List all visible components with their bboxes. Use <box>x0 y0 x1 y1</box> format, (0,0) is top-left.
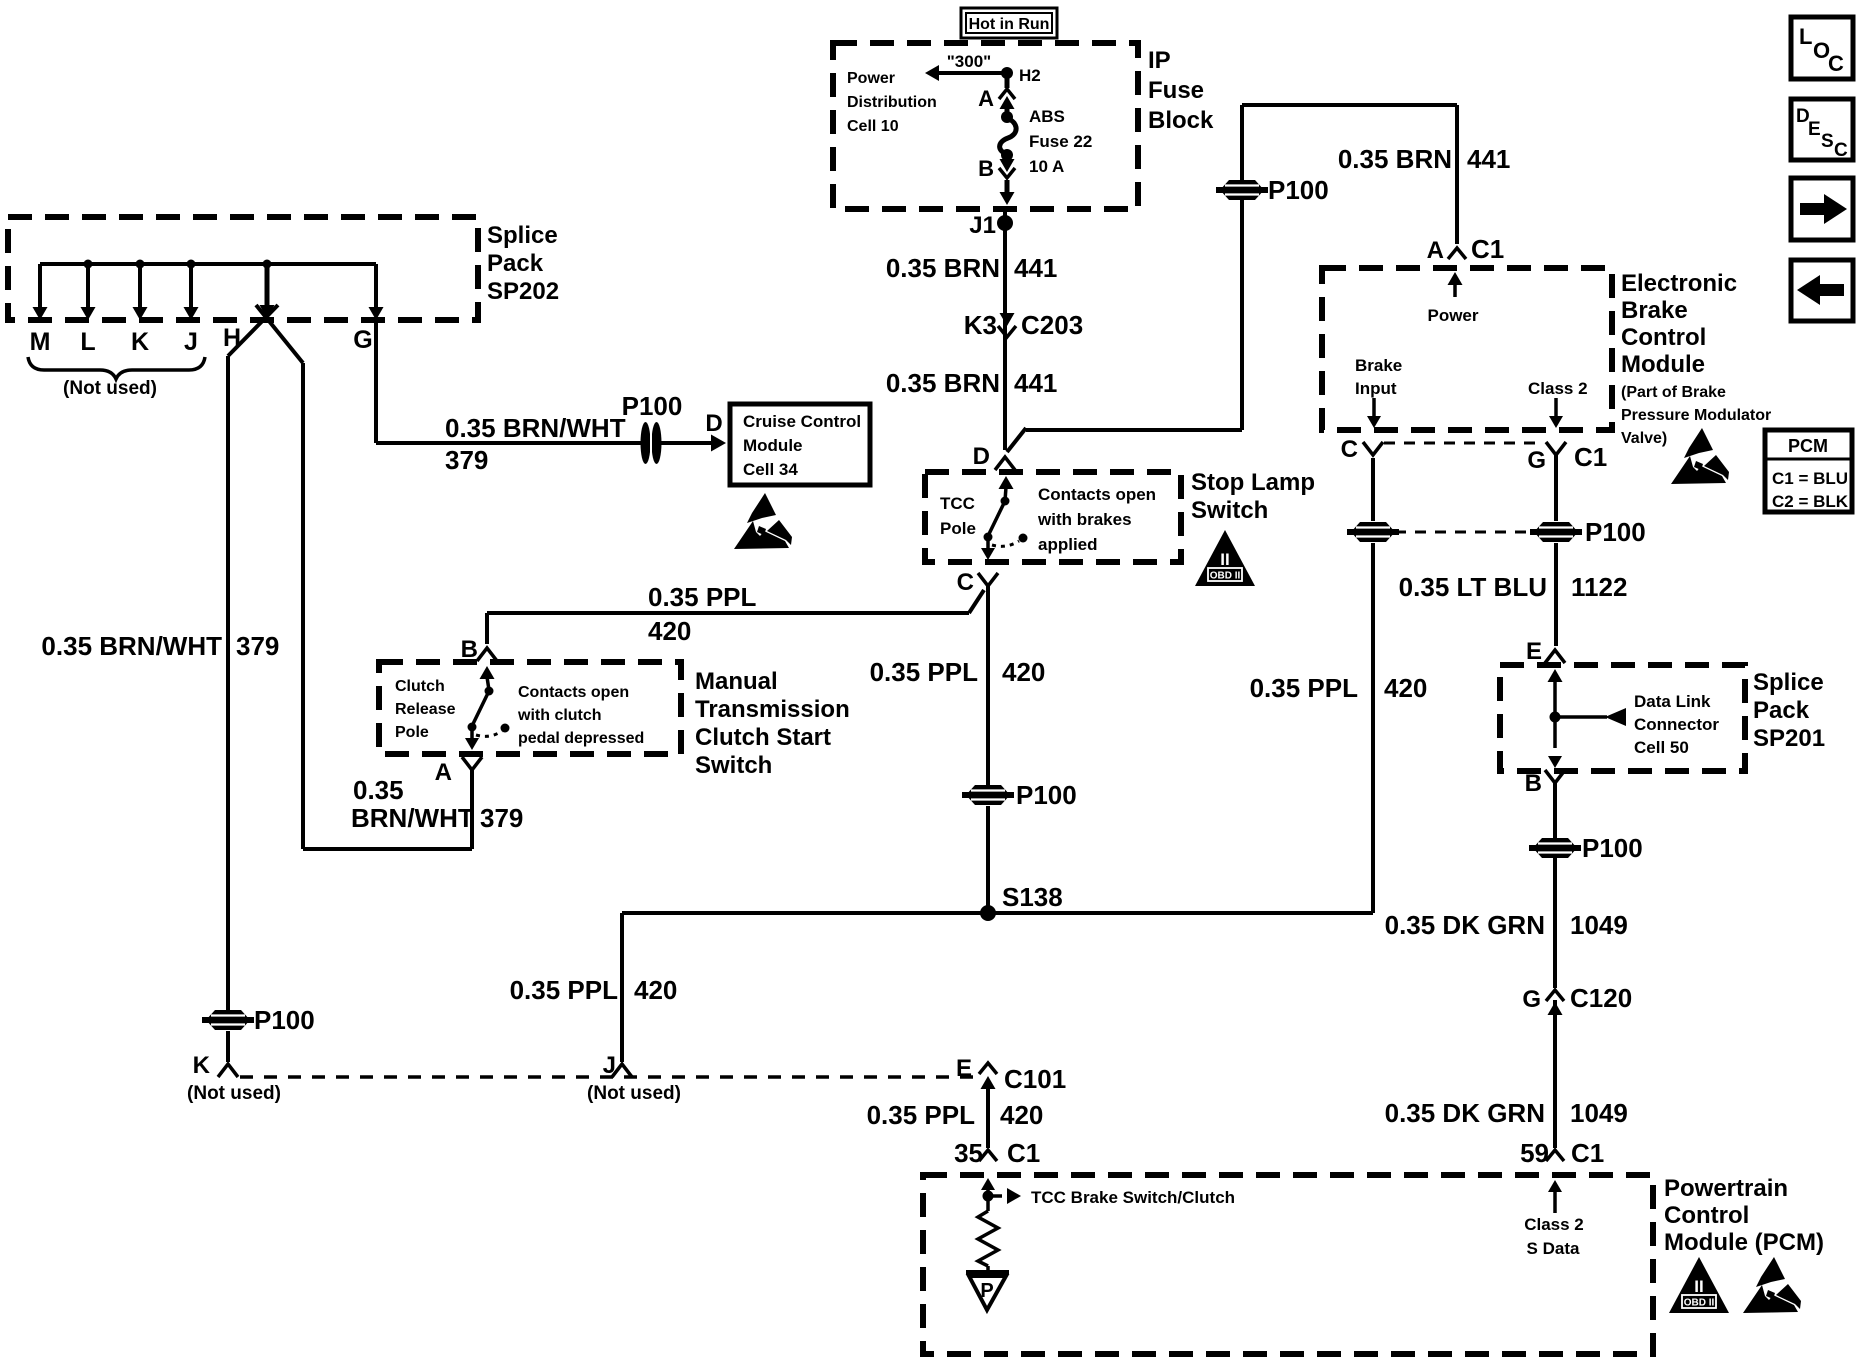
clutch switch dashed box <box>379 662 681 754</box>
svg-text:C203: C203 <box>1021 310 1083 340</box>
splice pack SP202 dashed box <box>8 217 478 320</box>
svg-text:M: M <box>30 328 51 356</box>
svg-text:C1: C1 <box>1007 1138 1040 1168</box>
bulkhead connector P100 (EBCM C) <box>1347 522 1399 542</box>
svg-text:SP201: SP201 <box>1753 725 1825 752</box>
svg-text:D: D <box>973 443 990 470</box>
fuse F22 ABS <box>1005 73 1010 88</box>
svg-text:Switch: Switch <box>1191 497 1268 524</box>
pin C of EBCM <box>1363 442 1383 455</box>
icon box prev-arrow <box>1791 260 1853 321</box>
wire G down to SP201 <box>1554 455 1558 521</box>
pin 35 C1 of PCM <box>979 1150 997 1161</box>
svg-text:C2 = BLK: C2 = BLK <box>1772 492 1849 511</box>
svg-text:Data Link: Data Link <box>1634 692 1711 711</box>
svg-text:Power: Power <box>847 70 895 87</box>
connector C101 pin E <box>979 1063 997 1074</box>
IP fuse block dashed box <box>833 43 1138 209</box>
pin J not used <box>612 1064 632 1077</box>
svg-text:P100: P100 <box>254 1005 315 1035</box>
pin A of clutch switch <box>462 757 482 770</box>
splice S138 <box>980 905 996 921</box>
svg-text:Brake: Brake <box>1355 356 1402 375</box>
ESD symbol (EBCM) <box>1671 428 1729 484</box>
wire C down to S138 <box>986 586 990 785</box>
svg-text:D: D <box>705 410 722 437</box>
svg-text:A: A <box>978 86 994 111</box>
svg-text:0.35 PPL: 0.35 PPL <box>510 975 619 1005</box>
svg-text:C: C <box>1834 140 1848 161</box>
wire S138 horizontal <box>622 911 1373 915</box>
connector C120 pin G <box>1546 990 1564 1001</box>
svg-text:A: A <box>435 759 452 786</box>
svg-text:379: 379 <box>445 445 488 475</box>
pin A C1 of EBCM <box>1448 248 1466 259</box>
svg-text:with brakes: with brakes <box>1037 510 1132 529</box>
bulkhead connector P100 (left) <box>202 1010 254 1030</box>
svg-text:II: II <box>1220 550 1229 569</box>
svg-text:Input: Input <box>1355 379 1397 398</box>
bulkhead connector P100 (class2) <box>1530 522 1582 542</box>
pin K not used <box>218 1064 238 1077</box>
svg-text:Stop Lamp: Stop Lamp <box>1191 469 1315 496</box>
terminal M <box>38 264 42 308</box>
switch TCC pole contacts <box>999 476 1014 489</box>
wire S138 down to J <box>620 913 624 1062</box>
svg-text:Valve): Valve) <box>1621 430 1667 447</box>
svg-text:59: 59 <box>1520 1138 1549 1168</box>
svg-text:(Not used): (Not used) <box>187 1083 281 1104</box>
svg-text:ABS: ABS <box>1029 107 1065 126</box>
svg-text:Class 2: Class 2 <box>1528 379 1588 398</box>
pin G C1 of EBCM <box>1546 442 1566 455</box>
svg-text:Fuse: Fuse <box>1148 77 1204 104</box>
svg-text:Transmission: Transmission <box>695 696 850 723</box>
svg-text:0.35 LT BLU: 0.35 LT BLU <box>1399 572 1547 602</box>
svg-text:L: L <box>80 328 95 356</box>
pin D of stop lamp switch <box>995 457 1015 470</box>
svg-text:Distribution: Distribution <box>847 94 937 111</box>
splice pack SP201 dashed box <box>1500 665 1745 771</box>
svg-text:with clutch: with clutch <box>517 707 602 724</box>
svg-text:Cruise Control: Cruise Control <box>743 412 861 431</box>
dashed link C-G pins <box>1384 442 1544 445</box>
svg-text:K: K <box>193 1052 211 1079</box>
svg-text:35: 35 <box>954 1138 983 1168</box>
svg-text:Cell 50: Cell 50 <box>1634 738 1689 757</box>
terminal H <box>263 260 272 269</box>
svg-text:H: H <box>223 324 241 352</box>
svg-text:0.35 PPL: 0.35 PPL <box>870 657 979 687</box>
svg-text:J: J <box>603 1052 616 1079</box>
svg-text:C120: C120 <box>1570 983 1632 1013</box>
EBCM dashed box <box>1322 268 1612 430</box>
icon box LOC <box>1791 17 1853 79</box>
svg-text:Control: Control <box>1621 324 1706 351</box>
svg-text:L: L <box>1799 24 1812 49</box>
svg-text:Power: Power <box>1427 306 1478 325</box>
svg-text:G: G <box>1522 986 1541 1013</box>
svg-text:J: J <box>184 328 198 356</box>
terminal K <box>136 260 145 269</box>
brace not used M-J <box>28 357 205 379</box>
svg-text:Class 2: Class 2 <box>1524 1215 1584 1234</box>
bulkhead connector P100 (top) <box>1216 180 1268 200</box>
svg-text:OBD II: OBD II <box>1684 1298 1715 1309</box>
PCM legend box <box>1765 430 1852 512</box>
svg-text:Clutch Start: Clutch Start <box>695 724 831 751</box>
pin C of stop lamp switch <box>978 573 998 586</box>
pin E of SP201 <box>1545 650 1565 663</box>
svg-text:Contacts open: Contacts open <box>1038 485 1156 504</box>
svg-text:Pole: Pole <box>395 724 429 741</box>
svg-text:Control: Control <box>1664 1202 1749 1229</box>
svg-text:Pack: Pack <box>1753 697 1810 724</box>
svg-text:0.35 PPL: 0.35 PPL <box>1250 673 1359 703</box>
svg-text:Block: Block <box>1148 107 1214 134</box>
svg-text:C101: C101 <box>1004 1064 1066 1094</box>
switch clutch release pole contacts <box>480 666 495 679</box>
wire G to cruise control module <box>374 322 378 443</box>
svg-text:Module: Module <box>1621 351 1705 378</box>
svg-text:B: B <box>461 636 478 663</box>
pin B of clutch switch <box>477 648 497 661</box>
svg-text:P: P <box>980 1280 993 1302</box>
stop lamp switch dashed box <box>925 472 1181 562</box>
svg-text:IP: IP <box>1148 47 1171 74</box>
svg-text:1049: 1049 <box>1570 910 1628 940</box>
svg-text:Fuse 22: Fuse 22 <box>1029 132 1092 151</box>
svg-text:C: C <box>957 569 974 596</box>
terminal J <box>187 260 196 269</box>
svg-text:A: A <box>1427 237 1444 264</box>
svg-text:J1: J1 <box>969 212 996 239</box>
svg-text:H2: H2 <box>1019 66 1041 85</box>
svg-text:0.35 BRN: 0.35 BRN <box>1338 144 1452 174</box>
PCM dashed box <box>923 1175 1653 1354</box>
wire 300 feed with arrow <box>925 65 939 81</box>
svg-text:0.35 BRN: 0.35 BRN <box>886 253 1000 283</box>
svg-text:G: G <box>1527 447 1546 474</box>
svg-text:Brake: Brake <box>1621 297 1688 324</box>
svg-text:Switch: Switch <box>695 752 772 779</box>
svg-text:Contacts open: Contacts open <box>518 684 629 701</box>
wire A down-left to splice pack leg <box>470 770 474 849</box>
svg-text:P100: P100 <box>622 391 683 421</box>
svg-text:420: 420 <box>648 616 691 646</box>
svg-text:0.35 PPL: 0.35 PPL <box>867 1100 976 1130</box>
wire fuse to D <box>1003 209 1007 450</box>
svg-text:BRN/WHT: BRN/WHT <box>351 803 474 833</box>
svg-text:0.35 BRN/WHT: 0.35 BRN/WHT <box>445 413 626 443</box>
svg-text:379: 379 <box>480 803 523 833</box>
svg-text:Splice: Splice <box>487 222 558 249</box>
ground P (PCM) <box>966 1270 1009 1274</box>
wire S138 up to EBCM C <box>1371 543 1375 913</box>
svg-text:SP202: SP202 <box>487 278 559 305</box>
svg-text:P100: P100 <box>1585 517 1646 547</box>
svg-text:1122: 1122 <box>1571 572 1627 602</box>
svg-text:0.35 BRN: 0.35 BRN <box>886 368 1000 398</box>
svg-text:Cell 10: Cell 10 <box>847 118 899 135</box>
svg-text:C1: C1 <box>1571 1138 1604 1168</box>
svg-text:Pole: Pole <box>940 519 976 538</box>
ESD symbol (cruise) <box>734 493 792 549</box>
EBCM brake input arrow <box>1372 398 1376 418</box>
svg-text:TCC: TCC <box>940 494 975 513</box>
splice bus SP202 <box>40 262 376 266</box>
svg-text:Hot in Run: Hot in Run <box>969 16 1050 33</box>
svg-text:1049: 1049 <box>1570 1098 1628 1128</box>
terminal L <box>84 260 93 269</box>
connector C203 pin K3 <box>1000 313 1015 326</box>
svg-text:C1: C1 <box>1471 234 1504 264</box>
terminal G <box>374 264 378 308</box>
svg-text:420: 420 <box>1384 673 1427 703</box>
svg-text:10 A: 10 A <box>1029 157 1064 176</box>
svg-text:K3: K3 <box>964 310 997 340</box>
svg-text:Splice: Splice <box>1753 669 1824 696</box>
svg-text:Module (PCM): Module (PCM) <box>1664 1229 1824 1256</box>
svg-text:441: 441 <box>1014 368 1057 398</box>
ESD symbol (PCM) <box>1743 1257 1801 1313</box>
svg-text:E: E <box>956 1055 972 1082</box>
bulkhead connector P100 (mid) <box>962 785 1014 805</box>
dashed not-used line K-J-E <box>240 1075 978 1079</box>
svg-text:C: C <box>1828 51 1844 76</box>
svg-text:P100: P100 <box>1268 175 1329 205</box>
svg-text:(Not used): (Not used) <box>63 378 157 399</box>
svg-text:0.35 PPL: 0.35 PPL <box>648 582 757 612</box>
svg-text:(Part of Brake: (Part of Brake <box>1621 384 1726 401</box>
svg-text:Powertrain: Powertrain <box>1664 1175 1788 1202</box>
svg-text:441: 441 <box>1467 144 1510 174</box>
wire D to P100 to EBCM <box>1007 428 1026 452</box>
power feed label Hot in Run <box>961 8 1057 38</box>
node H2 <box>1001 67 1013 79</box>
pin 59 C1 of PCM <box>1546 1150 1564 1161</box>
svg-text:PCM: PCM <box>1788 436 1828 456</box>
SP201 internal tap <box>1548 669 1563 682</box>
svg-text:S Data: S Data <box>1527 1239 1580 1258</box>
svg-text:Clutch: Clutch <box>395 678 445 695</box>
svg-text:Connector: Connector <box>1634 715 1719 734</box>
svg-text:TCC Brake Switch/Clutch: TCC Brake Switch/Clutch <box>1031 1188 1235 1207</box>
svg-text:OBD II: OBD II <box>1210 571 1241 582</box>
svg-text:Pack: Pack <box>487 250 544 277</box>
wire B down to PCM <box>1553 783 1557 838</box>
inline connector P100 (cruise leg) <box>641 422 662 464</box>
svg-text:Cell 34: Cell 34 <box>743 460 798 479</box>
svg-text:K: K <box>131 328 149 356</box>
svg-text:S: S <box>1821 131 1834 152</box>
EBCM power arrow <box>1448 272 1463 285</box>
svg-text:Manual: Manual <box>695 668 778 695</box>
svg-text:E: E <box>1808 119 1821 140</box>
svg-text:Electronic: Electronic <box>1621 270 1737 297</box>
svg-text:0.35: 0.35 <box>353 775 404 805</box>
cruise control module box <box>730 404 870 485</box>
svg-text:(Not used): (Not used) <box>587 1083 681 1104</box>
icon box DESC <box>1791 99 1853 160</box>
svg-text:C: C <box>1341 436 1358 463</box>
svg-text:"300": "300" <box>947 52 991 71</box>
pin D arrow into cruise module <box>711 435 726 452</box>
svg-text:Pressure Modulator: Pressure Modulator <box>1621 407 1771 424</box>
svg-text:G: G <box>353 326 372 354</box>
svg-text:applied: applied <box>1038 535 1098 554</box>
icon box next-arrow <box>1791 178 1853 240</box>
svg-text:Release: Release <box>395 701 456 718</box>
svg-text:0.35 DK GRN: 0.35 DK GRN <box>1385 1098 1545 1128</box>
EBCM class2 arrow <box>1554 398 1558 418</box>
svg-text:B: B <box>978 156 994 181</box>
svg-text:379: 379 <box>236 631 279 661</box>
PCM input 35 internals <box>981 1178 995 1190</box>
svg-text:pedal depressed: pedal depressed <box>518 730 644 747</box>
svg-text:II: II <box>1694 1277 1703 1296</box>
svg-text:0.35 DK GRN: 0.35 DK GRN <box>1385 910 1545 940</box>
OBD II symbol (PCM) <box>1669 1257 1729 1313</box>
svg-text:B: B <box>1525 770 1542 797</box>
pin B of SP201 <box>1545 770 1565 783</box>
svg-text:441: 441 <box>1014 253 1057 283</box>
svg-text:E: E <box>1526 638 1542 665</box>
wire H leg down to K <box>226 356 230 1010</box>
svg-text:0.35 BRN/WHT: 0.35 BRN/WHT <box>41 631 222 661</box>
svg-text:Module: Module <box>743 436 803 455</box>
node J1 <box>997 215 1013 231</box>
svg-text:S138: S138 <box>1002 882 1063 912</box>
dashed link P100 pair <box>1395 531 1532 534</box>
svg-text:C1 = BLU: C1 = BLU <box>1772 469 1848 488</box>
svg-text:P100: P100 <box>1016 780 1077 810</box>
svg-text:P100: P100 <box>1582 833 1643 863</box>
PCM input 59 internals <box>1548 1180 1562 1192</box>
svg-text:420: 420 <box>634 975 677 1005</box>
svg-text:C1: C1 <box>1574 442 1607 472</box>
svg-text:420: 420 <box>1002 657 1045 687</box>
resistor (PCM pull-up) <box>986 1196 990 1211</box>
OBD II symbol (stop lamp) <box>1195 530 1255 586</box>
wire C to B of clutch switch <box>969 590 984 613</box>
bulkhead connector P100 (SP201) <box>1529 838 1581 858</box>
svg-text:420: 420 <box>1000 1100 1043 1130</box>
